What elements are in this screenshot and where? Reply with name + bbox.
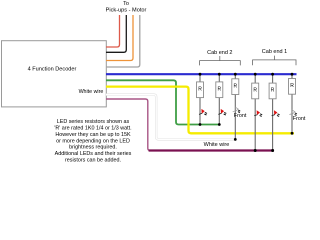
svg-text:To: To <box>123 1 129 7</box>
svg-text:Additional LEDs and their seri: Additional LEDs and their series <box>55 151 132 157</box>
svg-text:R: R <box>253 88 257 94</box>
svg-text:resistors can be added.: resistors can be added. <box>65 158 121 164</box>
svg-text:LED series resistors shown as: LED series resistors shown as <box>57 119 130 125</box>
svg-text:Cab end 1: Cab end 1 <box>262 49 287 55</box>
svg-text:R: R <box>233 83 237 89</box>
svg-text:Cab end 2: Cab end 2 <box>207 50 232 56</box>
svg-text:R: R <box>198 86 202 92</box>
svg-text:White wire: White wire <box>204 142 230 148</box>
svg-text:Pick-ups - Motor: Pick-ups - Motor <box>106 7 147 13</box>
svg-text:brightness required.: brightness required. <box>69 145 117 151</box>
svg-text:or more depending on the LED: or more depending on the LED <box>56 138 130 144</box>
svg-text:R: R <box>290 83 294 89</box>
svg-text:However they can be up to 15K: However they can be up to 15K <box>55 132 131 138</box>
svg-text:R: R <box>217 86 221 92</box>
svg-text:Front: Front <box>234 113 247 119</box>
svg-text:'R' are rated 1K0 1/4 or 1/3 w: 'R' are rated 1K0 1/4 or 1/3 watt. <box>54 125 131 131</box>
svg-text:White wire: White wire <box>79 89 104 95</box>
svg-text:Front: Front <box>293 116 306 122</box>
svg-text:4 Function Decoder: 4 Function Decoder <box>28 67 77 73</box>
svg-text:R: R <box>271 88 275 94</box>
